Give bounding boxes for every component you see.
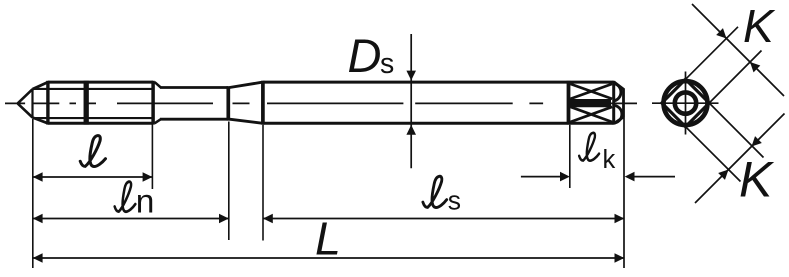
cone base vertical	[31, 89, 33, 118]
label ell	[80, 136, 105, 167]
chamfer crest slants	[33, 82, 48, 123]
square cross X bottom	[570, 107, 612, 122]
K lower extension lines	[686, 103, 764, 182]
thread start vertical	[46, 81, 49, 125]
ell-n dimension left arrow	[33, 214, 43, 224]
end view outer circle (shank)	[664, 81, 708, 125]
neck lines	[160, 88, 228, 120]
flare neck->shank	[230, 82, 263, 123]
K upper dimension arrow 2	[747, 59, 761, 73]
thread crest lines	[48, 82, 153, 123]
L dimension left arrow	[33, 253, 43, 263]
square corner arc top	[613, 83, 621, 101]
label ell of ell-n	[115, 182, 136, 212]
extension line square start	[569, 125, 571, 188]
extension line shank start	[262, 125, 264, 241]
L dimension right arrow	[615, 253, 625, 263]
ell-k dimension right arrow	[625, 172, 635, 182]
tap tip cone	[18, 89, 33, 117]
ell-s dimension line	[263, 218, 624, 220]
ell-k dimension tails	[521, 176, 675, 178]
square cross X top	[570, 84, 612, 99]
end view vertical centerline	[685, 72, 687, 135]
shank start vertical	[261, 81, 265, 125]
thread end vertical	[151, 81, 155, 125]
end view square (rotated 45)	[662, 79, 709, 126]
Ds dimension arrow down	[406, 71, 416, 81]
ell-k dimension left arrow	[560, 172, 570, 182]
svg-text:L: L	[315, 213, 341, 265]
square end vertical	[612, 81, 615, 125]
svg-text:s: s	[448, 185, 461, 215]
extension line tap end	[623, 118, 625, 268]
extension line thread end	[151, 125, 153, 190]
K upper dimension line	[692, 4, 784, 96]
Ds dimension arrow up	[406, 125, 416, 135]
svg-text:s: s	[380, 48, 394, 80]
thread root lines	[33, 89, 152, 118]
extension line left (ell, ell-n, L start)	[32, 119, 34, 268]
ell dimension line	[33, 176, 153, 178]
square start vertical	[567, 81, 571, 125]
end view inner circle	[675, 92, 696, 113]
ell dimension right arrow	[143, 172, 153, 182]
ell dimension left arrow	[33, 172, 43, 182]
ell-n dimension right arrow	[219, 214, 229, 224]
label ell of ell-s	[423, 176, 447, 207]
svg-text:K: K	[743, 0, 776, 52]
K lower dimension arrow 2	[748, 136, 762, 150]
ell-s dimension right arrow	[615, 214, 625, 224]
Ds dimension line (passes through shank)	[410, 34, 412, 168]
L dimension line	[33, 257, 625, 259]
K lower dimension arrow 1	[718, 166, 732, 180]
ell-s dimension left arrow	[263, 214, 273, 224]
svg-text:n: n	[136, 184, 155, 221]
square middle thick band	[568, 99, 612, 107]
centerline of tap side view	[5, 102, 637, 104]
neck end vertical	[226, 86, 230, 120]
square corner arc bottom	[613, 105, 622, 123]
ell-n dimension line	[33, 218, 229, 220]
K upper extension lines	[686, 27, 762, 103]
end view horizontal centerline	[652, 102, 719, 104]
mid-thread thick band	[84, 81, 89, 125]
K lower dimension line	[695, 114, 785, 204]
extension line neck end	[228, 122, 230, 241]
shank lines	[263, 82, 614, 123]
K upper dimension arrow 1	[716, 28, 730, 42]
svg-text:k: k	[603, 146, 616, 174]
shank end cap chamfer	[614, 82, 623, 123]
chamfer thread->neck	[155, 82, 161, 123]
svg-text:D: D	[348, 29, 382, 82]
end view	[652, 4, 785, 203]
svg-text:K: K	[739, 152, 775, 208]
label ell of ell-k	[579, 133, 599, 161]
